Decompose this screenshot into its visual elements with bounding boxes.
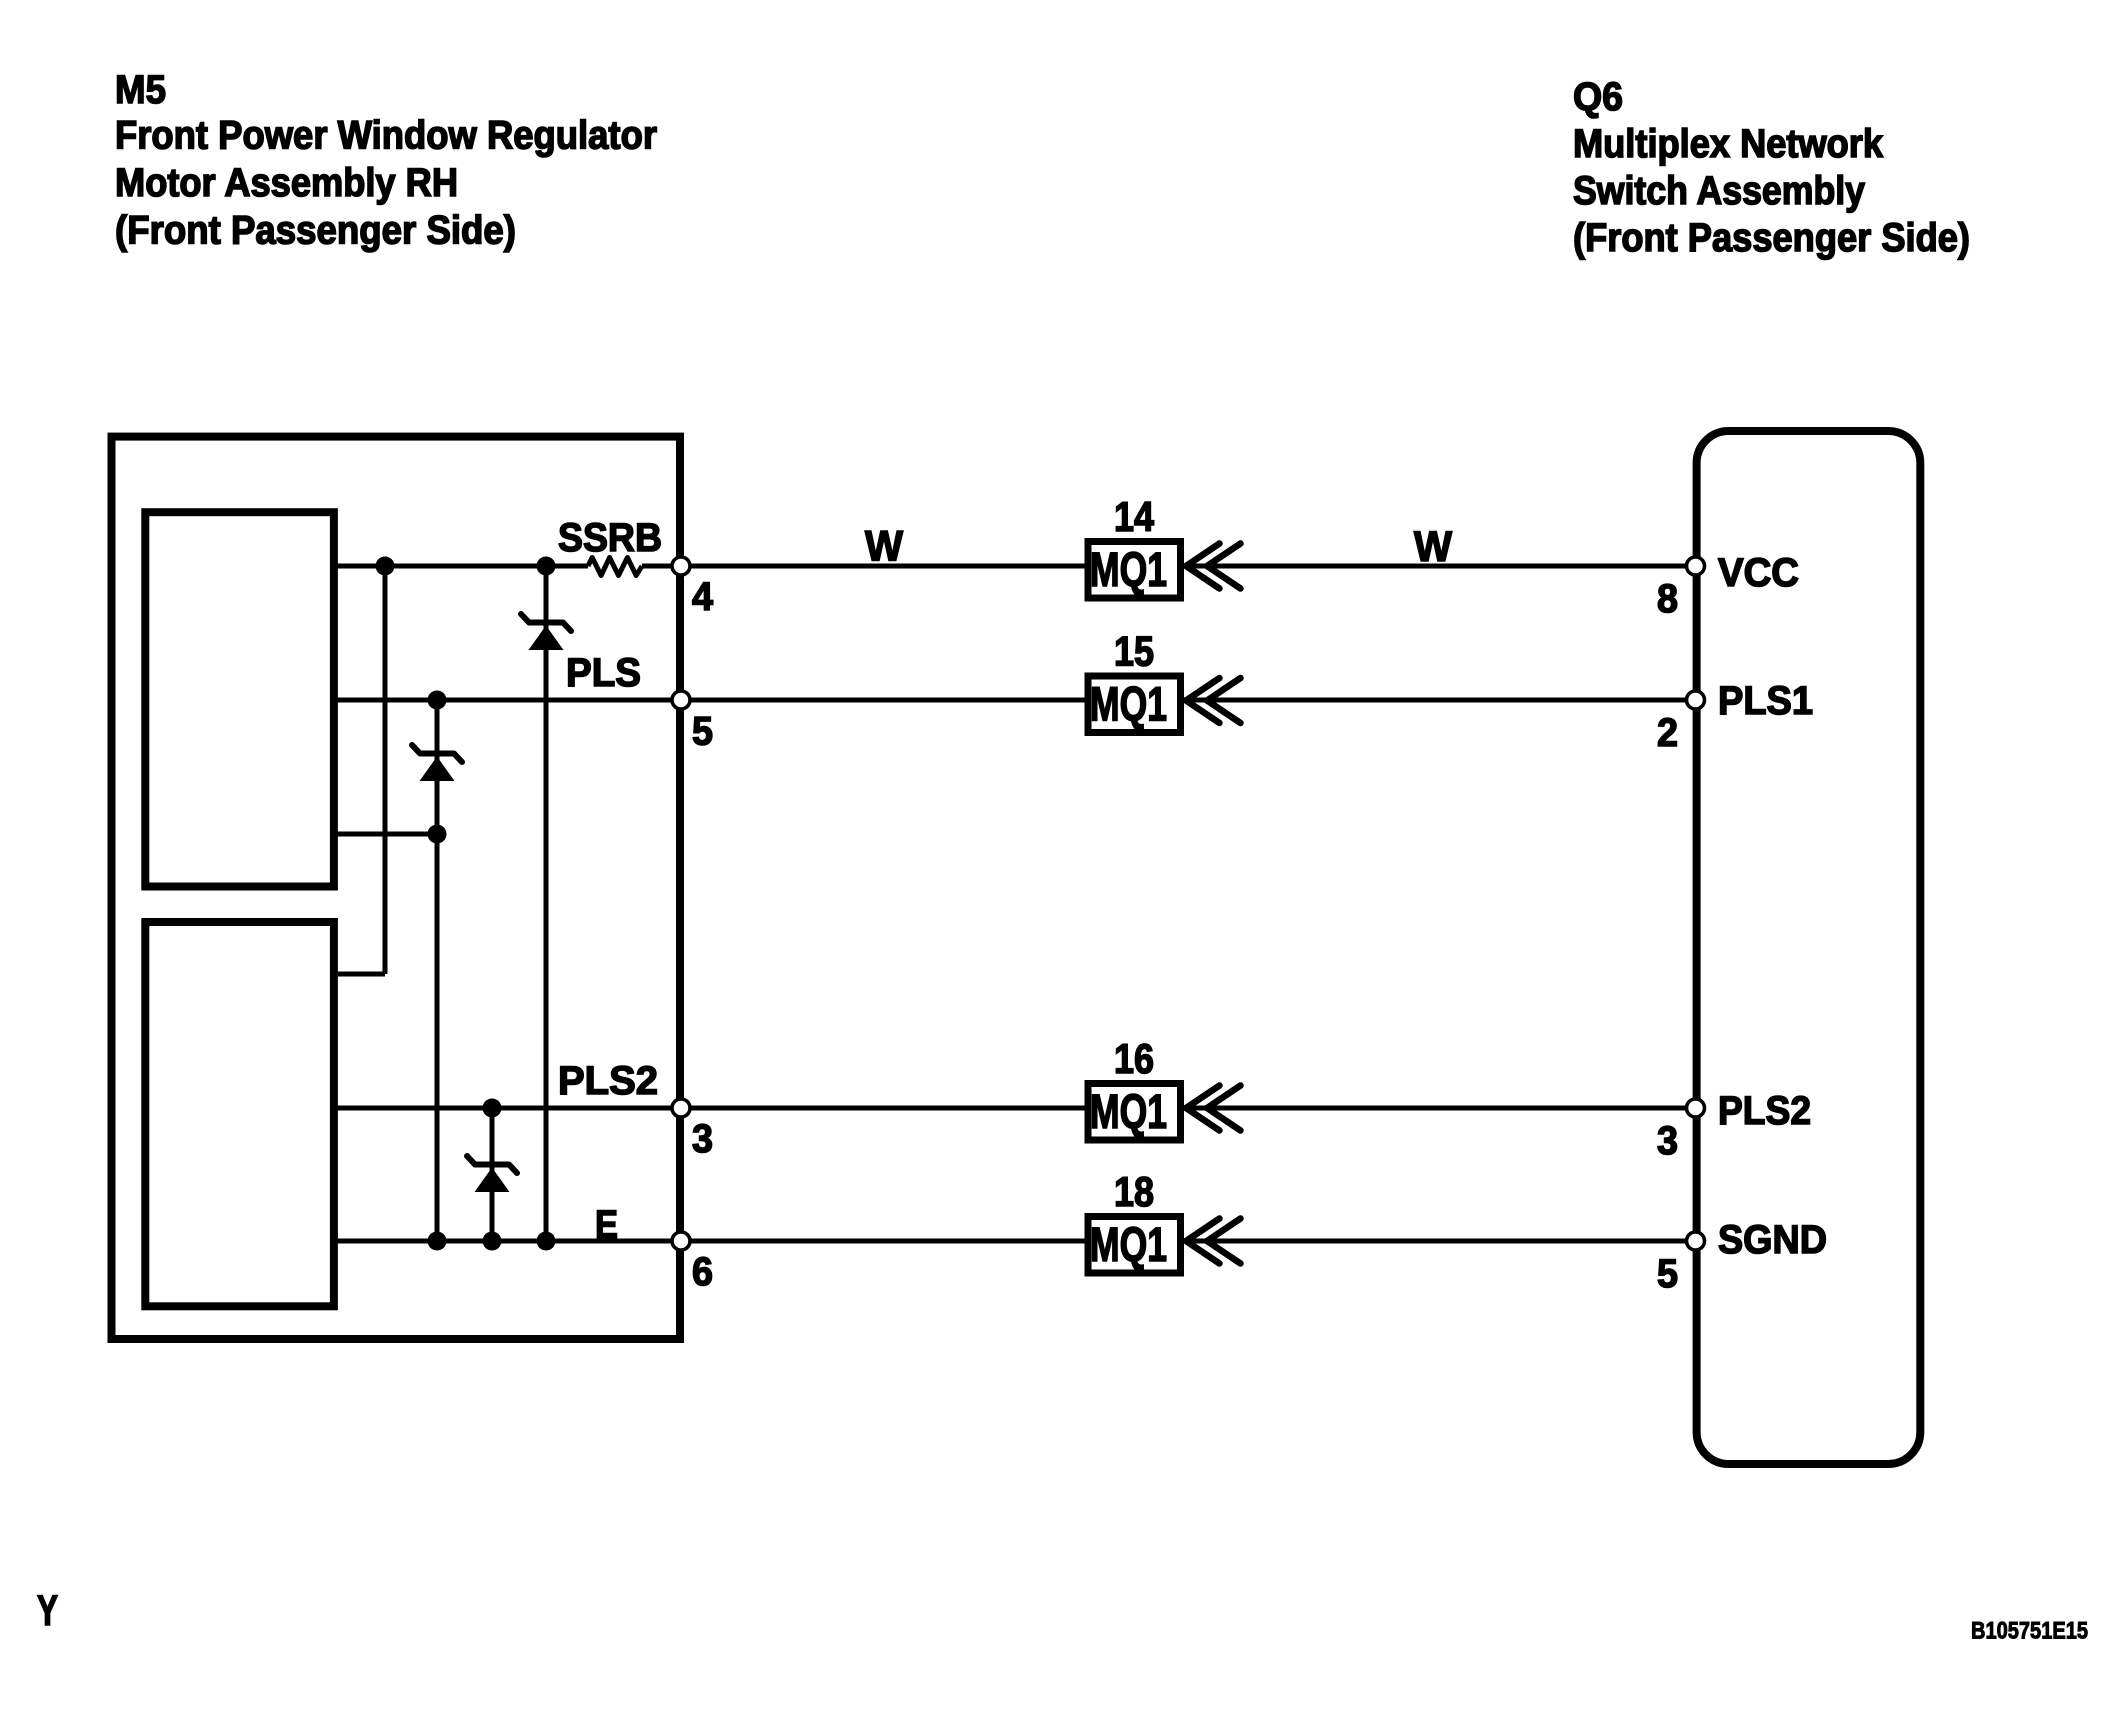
svg-text:16: 16 (1114, 1035, 1154, 1082)
svg-text:4: 4 (692, 575, 714, 619)
svg-text:VCC: VCC (1718, 551, 1799, 595)
connector 18 MQ1 (1088, 1168, 1241, 1273)
svg-text:Multiplex Network: Multiplex Network (1573, 122, 1884, 166)
pin 2 terminal circle (1687, 691, 1705, 709)
wire: E/SGND row (pin6 to pin5) (337, 1239, 1691, 1244)
wire: vertical column A (383, 566, 388, 974)
svg-text:Switch Assembly: Switch Assembly (1573, 169, 1866, 213)
junction node D top (537, 557, 556, 576)
svg-text:15: 15 (1114, 628, 1154, 675)
svg-text:Y: Y (37, 1587, 58, 1635)
svg-text:Motor Assembly RH: Motor Assembly RH (115, 161, 458, 205)
connector 14 MQ1 (1088, 493, 1241, 598)
svg-text:3: 3 (1657, 1119, 1678, 1163)
svg-text:PLS: PLS (566, 651, 641, 695)
svg-text:MQ1: MQ1 (1090, 679, 1167, 732)
junction node A top (376, 557, 395, 576)
wire: PLS/PLS1 row (pin5 to pin2) (337, 698, 1691, 703)
wire: vertical column C (490, 1108, 495, 1241)
wire: PLS2 row (pin3 to pin3) (337, 1106, 1691, 1111)
svg-text:MQ1: MQ1 (1090, 1086, 1167, 1139)
pin 8 terminal circle (1687, 557, 1705, 575)
svg-text:B105751E15: B105751E15 (1971, 1618, 2088, 1645)
svg-text:PLS1: PLS1 (1718, 679, 1813, 723)
zener diode D1 (521, 614, 571, 650)
svg-text:MQ1: MQ1 (1090, 1219, 1167, 1272)
wire: vertical column B (435, 700, 440, 1241)
svg-text:Q6: Q6 (1573, 75, 1623, 119)
wire: winding 2 upper terminal to column A (338, 972, 385, 977)
pin 6 terminal circle (672, 1232, 690, 1250)
label: Q6 component header text (1573, 75, 1970, 260)
junction node D on E wire (537, 1232, 556, 1251)
svg-text:W: W (865, 523, 903, 571)
svg-text:8: 8 (1657, 577, 1678, 621)
resistor SSRB (588, 558, 642, 576)
svg-text:2: 2 (1657, 711, 1678, 755)
junction node C on E wire (483, 1232, 502, 1251)
pin 4 terminal circle (672, 557, 690, 575)
pin 3 right terminal circle (1687, 1099, 1705, 1117)
svg-text:Front Power Window Regulator: Front Power Window Regulator (115, 114, 657, 158)
pin 5 terminal circle (672, 691, 690, 709)
connector 16 MQ1 (1088, 1035, 1241, 1140)
wire: vertical column D (544, 566, 549, 1241)
connector Q6 body (1697, 431, 1921, 1464)
junction node B on E wire (428, 1232, 447, 1251)
svg-text:(Front Passenger Side): (Front Passenger Side) (1573, 216, 1970, 260)
junction node B on PLS wire (428, 691, 447, 710)
svg-text:PLS2: PLS2 (1718, 1089, 1811, 1133)
svg-text:MQ1: MQ1 (1090, 544, 1167, 597)
junction node B stub (428, 825, 447, 844)
svg-text:SSRB: SSRB (558, 516, 662, 560)
wire: SSRB/VCC row (pin4 to pin8) (337, 564, 588, 569)
svg-text:6: 6 (692, 1250, 713, 1294)
label: M5 component header text (115, 68, 657, 253)
motor winding block 2 (lower) (145, 922, 334, 1306)
svg-text:14: 14 (1114, 493, 1155, 540)
connector M5 outer box (112, 437, 681, 1339)
junction node C on PLS2 wire (483, 1099, 502, 1118)
zener diode D3 (467, 1156, 517, 1192)
zener diode D2 (412, 745, 462, 781)
svg-text:3: 3 (692, 1117, 713, 1161)
pin 3 terminal circle (672, 1099, 690, 1117)
connector 15 MQ1 (1088, 628, 1241, 733)
svg-text:SGND: SGND (1718, 1218, 1827, 1262)
svg-text:18: 18 (1114, 1168, 1154, 1215)
svg-text:W: W (1414, 523, 1452, 571)
svg-text:PLS2: PLS2 (558, 1059, 658, 1103)
svg-text:M5: M5 (115, 68, 166, 112)
svg-text:E: E (595, 1203, 618, 1247)
svg-text:(Front Passenger Side): (Front Passenger Side) (115, 209, 516, 253)
pin 5 right terminal circle (1687, 1232, 1705, 1250)
wire: stub from winding 1 lower terminal (337, 832, 437, 837)
svg-text:5: 5 (1657, 1252, 1678, 1296)
motor winding block 1 (upper) (145, 512, 334, 886)
svg-text:5: 5 (692, 710, 713, 754)
